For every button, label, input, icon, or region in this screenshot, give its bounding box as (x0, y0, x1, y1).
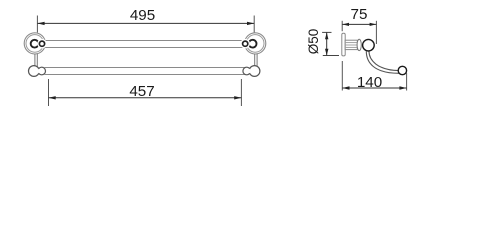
dimension 75 arrow left (342, 23, 349, 26)
dimension 495 line (37, 22, 254, 24)
dimension 75 extension line right (375, 21, 377, 44)
dimension 457 extension line left (48, 79, 50, 106)
dimension diameter 50 arrow up (325, 32, 328, 39)
escutcheon neck (345, 40, 357, 49)
bottom fitting left small ball (38, 67, 46, 75)
post left (35, 54, 37, 67)
dimension 495 label (130, 7, 155, 24)
bottom fitting left big ball (29, 66, 40, 77)
post right (255, 54, 257, 67)
wall flange right outer ring (245, 33, 266, 54)
dimension diameter 50 top tick (322, 31, 331, 33)
dimension 457 line (49, 97, 242, 99)
dimension 457 extension line right (240, 79, 242, 106)
collar ring (357, 39, 361, 50)
dimension 75 arrow right (370, 23, 377, 26)
svg-text:457: 457 (129, 83, 154, 100)
svg-text:75: 75 (351, 6, 368, 23)
dimension 140 arrow right (399, 86, 406, 89)
dimension 457 arrow right (234, 96, 241, 99)
dimension 495 extension line right (253, 16, 255, 33)
dimension 495 extension line left (36, 16, 38, 33)
dimension 140 arrow left (342, 86, 349, 89)
dimension 140 extension line left (341, 61, 343, 91)
dimension 495 arrow right (247, 22, 254, 25)
dimension 457 arrow left (49, 96, 56, 99)
bottom bar (45, 68, 246, 75)
dimension 140 extension line right (406, 73, 408, 91)
dimension diameter 50 arrow down (325, 49, 328, 56)
svg-text:495: 495 (130, 7, 155, 24)
wall flange left outer ring (24, 33, 45, 54)
dimension 75 line (342, 23, 376, 25)
upper ball joint (363, 39, 375, 51)
dimension 495 arrow left (37, 22, 44, 25)
top bar ring left (31, 40, 39, 48)
dimension 75 extension line left (341, 21, 343, 31)
top bar (45, 41, 245, 48)
dimension diameter 50 label (306, 29, 321, 55)
dimension diameter 50 line (326, 32, 328, 55)
arm curve (366, 51, 399, 73)
dimension 457 label (129, 83, 154, 100)
top bar ball right (240, 39, 250, 49)
dimension 75 label (351, 6, 368, 23)
dimension 140 label (357, 74, 382, 91)
svg-text:Ø50: Ø50 (306, 29, 321, 55)
dimension diameter 50 bottom tick (323, 55, 339, 57)
top bar ball left (37, 39, 47, 49)
top bar ring right (249, 40, 257, 48)
dimension 140 line (342, 87, 406, 89)
bottom fitting right small ball (243, 67, 251, 75)
bottom fitting right big ball (249, 66, 260, 77)
wall plate side view (342, 33, 345, 56)
lower ball end (398, 66, 406, 74)
